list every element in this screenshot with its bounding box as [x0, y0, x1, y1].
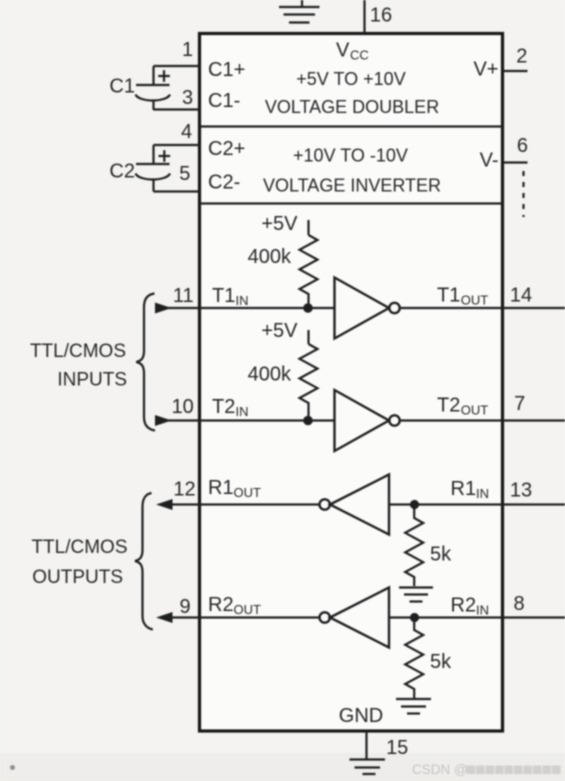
svg-text:13: 13: [510, 479, 532, 501]
svg-text:C2: C2: [109, 160, 135, 182]
svg-text:16: 16: [370, 5, 392, 27]
svg-text:VOLTAGE DOUBLER: VOLTAGE DOUBLER: [265, 97, 439, 117]
svg-text:CC: CC: [350, 48, 369, 63]
svg-text:CSDN @: CSDN @: [412, 762, 468, 777]
svg-text:14: 14: [510, 285, 532, 307]
svg-text:T2: T2: [437, 395, 460, 417]
svg-text:C1+: C1+: [208, 59, 245, 81]
svg-text:INPUTS: INPUTS: [57, 370, 127, 391]
svg-text:IN: IN: [476, 603, 489, 618]
svg-text:OUT: OUT: [234, 602, 262, 617]
svg-text:5k: 5k: [430, 544, 452, 566]
svg-text:10: 10: [172, 396, 194, 418]
svg-text:400k: 400k: [248, 364, 292, 386]
svg-text:IN: IN: [236, 293, 249, 308]
svg-text:9: 9: [180, 596, 191, 618]
svg-text:C2-: C2-: [208, 172, 240, 194]
svg-text:2: 2: [516, 46, 527, 68]
svg-text:VOLTAGE INVERTER: VOLTAGE INVERTER: [263, 176, 441, 196]
svg-text:V: V: [336, 40, 350, 62]
svg-text:R2: R2: [451, 595, 477, 617]
svg-text:4: 4: [181, 121, 192, 143]
svg-text:5k: 5k: [430, 651, 452, 673]
svg-text:T2: T2: [212, 396, 235, 418]
svg-text:3: 3: [182, 87, 193, 109]
svg-text:+5V: +5V: [261, 213, 298, 235]
svg-text:C1: C1: [109, 75, 135, 97]
svg-text:R2: R2: [208, 594, 234, 616]
svg-text:IN: IN: [236, 404, 249, 419]
svg-text:C1-: C1-: [208, 90, 240, 112]
svg-text:T1: T1: [437, 285, 460, 307]
svg-text:1: 1: [182, 39, 193, 61]
svg-text:6: 6: [517, 135, 528, 157]
svg-text:400k: 400k: [248, 246, 292, 268]
svg-text:R1: R1: [208, 477, 234, 499]
svg-text:C2+: C2+: [208, 138, 245, 160]
svg-text:R1: R1: [451, 478, 477, 500]
svg-text:8: 8: [513, 593, 524, 615]
svg-text:IN: IN: [476, 486, 489, 501]
svg-text:5: 5: [179, 163, 190, 185]
svg-text:OUT: OUT: [234, 485, 262, 500]
svg-text:15: 15: [386, 737, 408, 759]
svg-text:+10V TO -10V: +10V TO -10V: [293, 146, 408, 166]
svg-text:V+: V+: [473, 59, 498, 81]
svg-text:T1: T1: [212, 285, 235, 307]
svg-text:OUTPUTS: OUTPUTS: [32, 567, 123, 588]
svg-text:TTL/CMOS: TTL/CMOS: [30, 341, 126, 362]
svg-text:7: 7: [514, 393, 525, 415]
svg-text:OUT: OUT: [461, 403, 489, 418]
svg-text:+5V TO +10V: +5V TO +10V: [296, 69, 405, 89]
svg-text:TTL/CMOS: TTL/CMOS: [31, 537, 127, 558]
svg-text:GND: GND: [339, 705, 383, 727]
svg-text:V-: V-: [480, 150, 499, 172]
svg-text:11: 11: [173, 285, 194, 307]
svg-text:OUT: OUT: [461, 293, 489, 308]
svg-text:12: 12: [173, 479, 195, 501]
svg-text:+5V: +5V: [261, 320, 298, 342]
